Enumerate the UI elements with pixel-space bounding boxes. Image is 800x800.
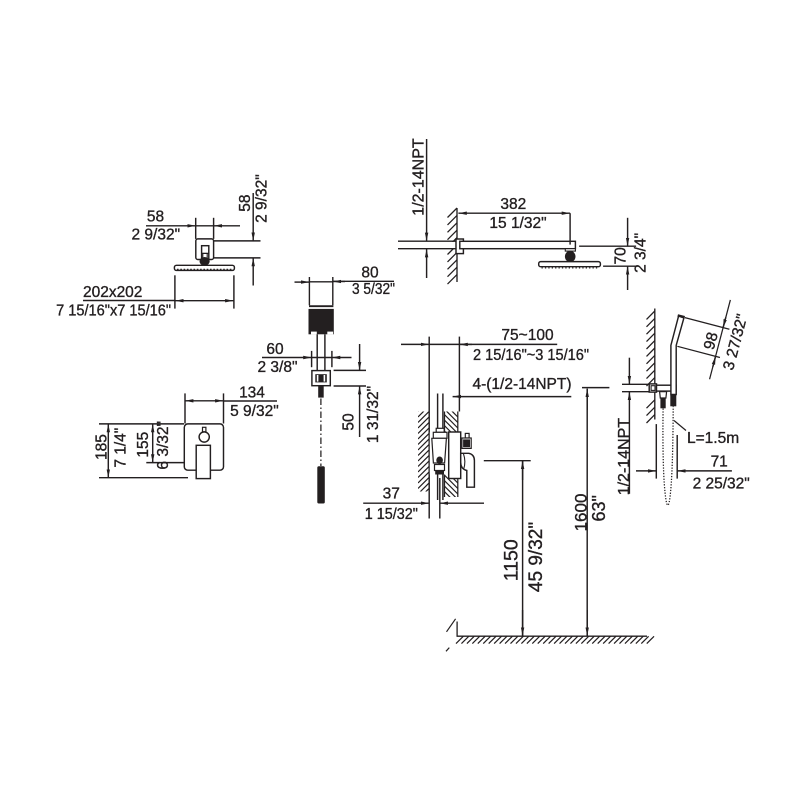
svg-text:2 25/32": 2 25/32" (693, 476, 750, 493)
svg-text:134: 134 (239, 384, 265, 401)
svg-text:58: 58 (237, 194, 254, 211)
svg-text:4-(1/2-14NPT): 4-(1/2-14NPT) (472, 376, 571, 393)
svg-text:37: 37 (383, 485, 400, 502)
svg-text:63": 63" (589, 495, 609, 521)
svg-text:L=1.5m: L=1.5m (687, 430, 739, 447)
svg-text:2 9/32": 2 9/32" (131, 226, 180, 243)
svg-text:60: 60 (266, 341, 284, 358)
svg-text:382: 382 (500, 196, 526, 213)
svg-text:185: 185 (94, 434, 111, 460)
svg-text:155: 155 (135, 432, 152, 458)
svg-text:58: 58 (147, 208, 164, 225)
svg-text:1600: 1600 (572, 494, 591, 532)
svg-text:45 9/32": 45 9/32" (526, 522, 547, 592)
svg-text:71: 71 (711, 454, 728, 471)
svg-text:3 5/32": 3 5/32" (352, 281, 395, 298)
svg-text:2 3/4": 2 3/4" (633, 233, 650, 273)
svg-text:7 1/4": 7 1/4" (112, 428, 129, 468)
svg-text:2 3/8": 2 3/8" (258, 359, 298, 376)
svg-text:1 31/32": 1 31/32" (365, 386, 382, 443)
svg-text:2 15/16"~3 15/16": 2 15/16"~3 15/16" (473, 347, 589, 364)
svg-text:5 9/32": 5 9/32" (230, 403, 279, 420)
svg-text:2 9/32": 2 9/32" (253, 174, 270, 223)
svg-text:1 15/32": 1 15/32" (365, 506, 418, 523)
svg-text:80: 80 (361, 264, 379, 281)
svg-text:1/2-14NPT: 1/2-14NPT (616, 418, 633, 496)
svg-text:1150: 1150 (501, 539, 523, 581)
svg-text:6 3/32": 6 3/32" (155, 421, 172, 470)
svg-text:1/2-14NPT: 1/2-14NPT (411, 138, 428, 216)
svg-text:70: 70 (612, 247, 629, 265)
svg-text:202x202: 202x202 (83, 284, 142, 301)
svg-text:50: 50 (341, 413, 358, 431)
svg-text:75~100: 75~100 (501, 327, 554, 344)
svg-text:15 1/32": 15 1/32" (489, 215, 546, 232)
svg-text:7 15/16"x7 15/16": 7 15/16"x7 15/16" (56, 303, 171, 320)
